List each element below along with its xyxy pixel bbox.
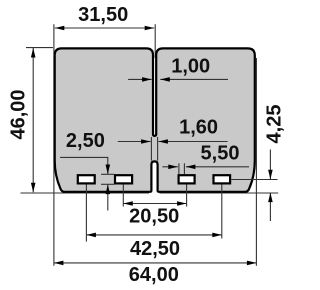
- hole H1: [78, 175, 95, 183]
- dimension 5,50 (hole width): [162, 166, 249, 168]
- dimension 2,50 (hole height) with leader: [60, 157, 108, 210]
- extension line bottom (46,00 / 4,25 reference): [21, 192, 150, 194]
- svg-text:42,50: 42,50: [130, 238, 180, 260]
- reed valve plate body (two petals): [55, 48, 255, 191]
- 5,50 extension line B: [183, 163, 185, 174]
- extension lines below holes (dimension references): [85, 185, 87, 242]
- 2,50 tick bottom: [101, 183, 114, 185]
- svg-text:46,00: 46,00: [8, 89, 30, 139]
- extension line right (overall width): [255, 58, 257, 266]
- dimension 42,50 (outer hole spacing): [86, 234, 221, 236]
- 2,50 tick top: [101, 173, 114, 175]
- 1,60 extension lines: [150, 137, 152, 161]
- dimension 20,50 (inner hole spacing): [123, 203, 186, 205]
- svg-text:1,00: 1,00: [171, 56, 210, 78]
- dimension 46,00: [32, 48, 34, 192]
- svg-text:31,50: 31,50: [78, 4, 128, 26]
- svg-text:64,00: 64,00: [129, 264, 179, 286]
- dimension 64,00 (overall width): [54, 262, 257, 264]
- thin lines drawn over the plate: [86, 137, 277, 242]
- dimension 31,50: [55, 27, 154, 29]
- hole H3: [179, 175, 195, 183]
- svg-text:20,50: 20,50: [129, 205, 179, 227]
- hole H2: [115, 175, 132, 183]
- hole H4: [214, 175, 231, 183]
- dimension 1,60 (slot width): [118, 141, 228, 143]
- extension line slit centerline top: [154, 24, 156, 58]
- svg-text:4,25: 4,25: [264, 105, 286, 144]
- 4,25 top reference line (hole centre level): [231, 179, 277, 181]
- extension line left (overall width / 31,50 left): [21, 24, 279, 266]
- svg-text:1,60: 1,60: [179, 117, 218, 139]
- dimension 1,00 (slit width): [128, 78, 228, 80]
- extension line top-left (46,00 top reference): [26, 47, 53, 49]
- svg-text:2,50: 2,50: [66, 130, 105, 152]
- 5,50 extension line A: [178, 163, 180, 175]
- svg-text:5,50: 5,50: [201, 142, 240, 164]
- dimension 4,25 (hole centre to bottom edge): [269, 150, 271, 222]
